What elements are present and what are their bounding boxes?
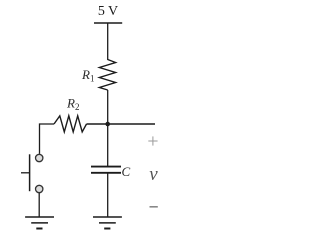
pushbutton S1 actuator stub	[21, 172, 30, 174]
node A junction dot	[105, 122, 110, 127]
capacitor C	[91, 167, 121, 173]
resistor R2	[54, 116, 87, 132]
wire R1 to node A	[107, 90, 109, 124]
wire corner to R2 left	[40, 124, 55, 154]
plus terminal mark	[148, 136, 157, 145]
svg-text:C: C	[122, 164, 131, 179]
wire R2 to node A	[87, 123, 108, 125]
pushbutton S1 top terminal	[36, 154, 43, 161]
ground left	[25, 217, 54, 229]
svg-text:v: v	[149, 164, 158, 185]
wire supply to R1	[107, 23, 109, 60]
wire capacitor to ground	[107, 173, 109, 217]
wire node A to output terminal	[108, 123, 155, 125]
minus terminal mark	[150, 206, 158, 208]
pushbutton S1 actuator	[29, 154, 31, 191]
svg-text:R2: R2	[66, 96, 79, 113]
svg-text:R1: R1	[81, 67, 94, 84]
svg-text:5 V: 5 V	[98, 4, 118, 19]
supply rail bar	[94, 22, 122, 24]
resistor R1	[99, 60, 115, 91]
wire switch to ground	[38, 193, 40, 217]
wire node A to capacitor	[107, 124, 109, 166]
pushbutton S1 bottom terminal	[36, 185, 43, 192]
ground right	[93, 217, 122, 229]
